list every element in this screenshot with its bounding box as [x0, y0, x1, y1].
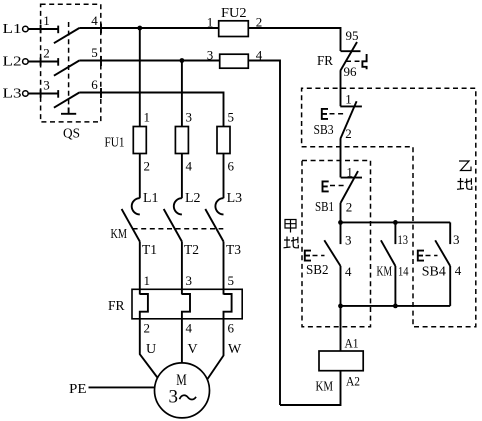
contact FR 95-96 normally-closed thermal [317, 28, 367, 79]
svg-text:2: 2 [43, 46, 50, 61]
wire FU1 column 1 [139, 28, 141, 127]
svg-text:V: V [188, 342, 198, 357]
svg-text:T1: T1 [142, 243, 157, 258]
relay FR heater element 2 [182, 294, 190, 319]
svg-text:4: 4 [186, 321, 193, 336]
contact KM mechanism dashed link [133, 228, 224, 230]
svg-text:4: 4 [186, 159, 193, 174]
svg-text:1: 1 [43, 13, 50, 28]
svg-text:2: 2 [144, 159, 151, 174]
contact KM main pole 1 [122, 191, 159, 242]
svg-text:SB3: SB3 [314, 123, 334, 138]
svg-text:2: 2 [345, 126, 352, 141]
wire rail to coil A1 [340, 306, 342, 351]
wire FU1b to KM contact 2 [181, 154, 183, 199]
wire KM pole1 to FR heater 1 [139, 242, 141, 295]
svg-text:L2: L2 [3, 55, 22, 70]
wire SB3 to SB1 [340, 139, 342, 177]
wire motor lead U [140, 319, 159, 379]
svg-text:4: 4 [455, 263, 462, 278]
wire FU1c to KM contact 3 [223, 154, 225, 199]
svg-text:SB4: SB4 [422, 265, 446, 280]
node L2 terminal [3, 55, 29, 70]
pushbutton SB2 (NO start, location A) [305, 222, 352, 306]
wire parallel top rail [341, 221, 451, 223]
svg-text:FR: FR [317, 54, 334, 69]
svg-text:95: 95 [346, 28, 359, 43]
svg-text:1: 1 [346, 165, 353, 180]
svg-text:FU2: FU2 [221, 6, 247, 21]
contact KM auxiliary (NO self-holding) [377, 222, 409, 306]
svg-text:FU1: FU1 [105, 136, 125, 151]
label yi-di (location B) glyphs [457, 161, 472, 190]
junction dot phase1 / FU1-1 [137, 26, 142, 31]
dashed box location A (jia di) [302, 161, 371, 327]
dashed box location B (yi di, L-shaped) [302, 88, 476, 327]
svg-text:6: 6 [228, 321, 235, 336]
node L1 terminal [3, 22, 29, 37]
svg-text:SB1: SB1 [315, 200, 334, 215]
wire PE [89, 386, 161, 388]
svg-text:PE: PE [69, 382, 87, 397]
svg-text:3: 3 [186, 110, 193, 125]
coil KM [316, 336, 364, 395]
svg-text:5: 5 [228, 273, 235, 288]
svg-text:L3: L3 [227, 191, 243, 206]
svg-text:5: 5 [228, 110, 235, 125]
svg-text:5: 5 [91, 45, 98, 60]
switch QS handle [61, 108, 76, 114]
label jia-di (location A) glyphs [284, 220, 299, 249]
svg-text:1: 1 [144, 273, 151, 288]
wire KM pole2 to FR heater 2 [181, 242, 183, 295]
svg-text:96: 96 [344, 64, 358, 79]
switch QS mechanism dashed link [68, 22, 70, 107]
switch QS blade pole3 [54, 93, 79, 108]
wire parallel bottom rail [341, 305, 451, 307]
fuse FU2a [207, 6, 263, 37]
fuse FU1a [105, 110, 151, 174]
wire L2 input stub [28, 58, 58, 66]
svg-text:U: U [146, 342, 156, 357]
switch QS output tick pole1 [100, 24, 102, 34]
svg-text:6: 6 [91, 77, 98, 92]
junction dot bottom rail left [338, 304, 343, 309]
wire FU2a output to control column [248, 28, 340, 51]
switch QS output tick pole2 [100, 56, 102, 66]
pushbutton SB1 (NC stop, location A) [315, 165, 362, 216]
relay FR thermal box [132, 289, 242, 319]
wire L1 input stub [28, 25, 58, 33]
node L3 terminal [3, 87, 29, 102]
wire FU2b output to return column [248, 61, 280, 406]
svg-text:T2: T2 [184, 243, 199, 258]
svg-text:SB2: SB2 [306, 263, 329, 278]
junction dot rail KM branch [393, 220, 398, 225]
svg-text:4: 4 [91, 13, 98, 28]
svg-text:2: 2 [144, 321, 151, 336]
svg-text:FR: FR [108, 299, 125, 314]
svg-text:3: 3 [207, 48, 214, 63]
fuse FU1c [217, 110, 235, 174]
wire motor lead V [181, 319, 183, 367]
svg-text:L1: L1 [3, 22, 22, 37]
switch QS blade pole1 [54, 28, 79, 43]
svg-text:14: 14 [398, 264, 409, 279]
contact KM main pole 2 [164, 191, 201, 242]
svg-text:3: 3 [186, 273, 193, 288]
pushbutton SB4 (NO start, location B) [418, 222, 462, 306]
svg-text:3: 3 [345, 233, 352, 248]
svg-text:13: 13 [398, 232, 409, 247]
svg-text:1: 1 [144, 110, 151, 125]
svg-text:L1: L1 [143, 191, 159, 206]
svg-text:L2: L2 [185, 191, 201, 206]
svg-text:A2: A2 [346, 374, 360, 389]
switch QS dashed box [41, 4, 101, 122]
svg-text:3: 3 [453, 232, 460, 247]
svg-text:KM: KM [377, 265, 393, 280]
svg-text:T3: T3 [226, 243, 241, 258]
junction dot rail left [338, 220, 343, 225]
svg-text:4: 4 [345, 264, 352, 279]
svg-text:6: 6 [228, 159, 235, 174]
motor M 3-phase circle [155, 363, 210, 418]
wire motor lead W [208, 319, 224, 379]
wire L3 input stub [28, 90, 58, 98]
wire KM pole3 to FR heater 3 [223, 242, 225, 295]
wire SB1 to rail [340, 203, 342, 222]
wire FU1a to KM contact 1 [139, 154, 141, 199]
svg-text:A1: A1 [345, 336, 359, 351]
svg-text:KM: KM [111, 227, 128, 242]
svg-text:3: 3 [43, 78, 50, 93]
wire FU1 column 2 [181, 61, 183, 127]
fuse FU2b [207, 48, 263, 69]
fuse FU1b [175, 110, 192, 174]
svg-text:W: W [228, 342, 242, 357]
junction dot phase2 / FU1-2 [180, 58, 185, 63]
svg-text:1: 1 [207, 15, 214, 30]
switch QS blade pole2 [54, 61, 79, 76]
pushbutton SB3 (NC stop, location B) [314, 92, 362, 142]
svg-text:3: 3 [169, 387, 179, 408]
svg-text:1: 1 [345, 92, 352, 107]
svg-text:L3: L3 [3, 87, 22, 102]
wire phase1 top rail [79, 27, 218, 29]
relay FR heater element 1 [140, 294, 148, 319]
wire phase3 rail [79, 93, 223, 127]
wire FR to SB3 [340, 71, 342, 106]
junction dot bottom rail KM [393, 304, 398, 309]
relay FR heater element 3 [224, 294, 232, 319]
wire phase2 rail [79, 60, 219, 62]
switch QS output tick pole3 [100, 88, 102, 98]
contact KM main pole 3 [205, 191, 242, 242]
svg-text:KM: KM [316, 380, 334, 395]
wire coil A2 return [280, 371, 341, 405]
svg-text:2: 2 [346, 200, 353, 215]
svg-text:QS: QS [63, 127, 80, 142]
